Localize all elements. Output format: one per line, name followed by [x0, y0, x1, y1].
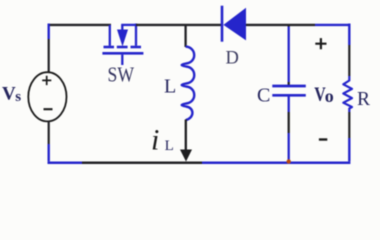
- wire top right-of-diode horizontal (black): [246, 24, 315, 26]
- svg-text:SW: SW: [108, 62, 135, 86]
- wire left vertical lower (black then blue): [48, 121, 50, 161]
- wire right vertical upper (blue then black): [348, 24, 350, 77]
- inductor lower wire + current arrow iL: [180, 120, 192, 162]
- svg-text:D: D: [226, 49, 239, 69]
- svg-text:V: V: [2, 84, 16, 105]
- wire right vertical lower (black then blue): [348, 112, 350, 161]
- voltage source Vs: [28, 72, 66, 121]
- wire left vertical upper (blue then black): [48, 24, 50, 74]
- svg-text:L: L: [164, 76, 176, 98]
- label iL: [151, 124, 174, 157]
- wire top-left horizontal (black): [48, 24, 111, 26]
- wire top-right horizontal (blue): [315, 24, 350, 26]
- label Vo: [314, 83, 334, 106]
- capacitor stem upper: [288, 24, 290, 85]
- svg-text:C: C: [257, 85, 270, 107]
- junction dot (orange): [287, 159, 291, 163]
- wire top middle horizontal (black): [136, 24, 221, 26]
- resistor R zigzag: [343, 76, 352, 112]
- capacitor stem lower: [288, 97, 290, 161]
- svg-text:R: R: [357, 89, 370, 110]
- inductor stub top (black): [184, 25, 186, 47]
- svg-text:s: s: [15, 89, 21, 105]
- wire bottom horizontal (blue left, black middle, blue right): [48, 162, 351, 165]
- capacitor C plates: [272, 86, 306, 95]
- inductor L coil: [182, 47, 195, 121]
- svg-text:i: i: [151, 124, 159, 157]
- svg-text:o: o: [325, 86, 334, 106]
- svg-text:L: L: [165, 138, 174, 154]
- MOSFET SW: [102, 24, 143, 66]
- diode D: [222, 6, 246, 42]
- label + output: [315, 38, 326, 49]
- label minus output: [319, 138, 327, 140]
- label Vs: [2, 84, 21, 105]
